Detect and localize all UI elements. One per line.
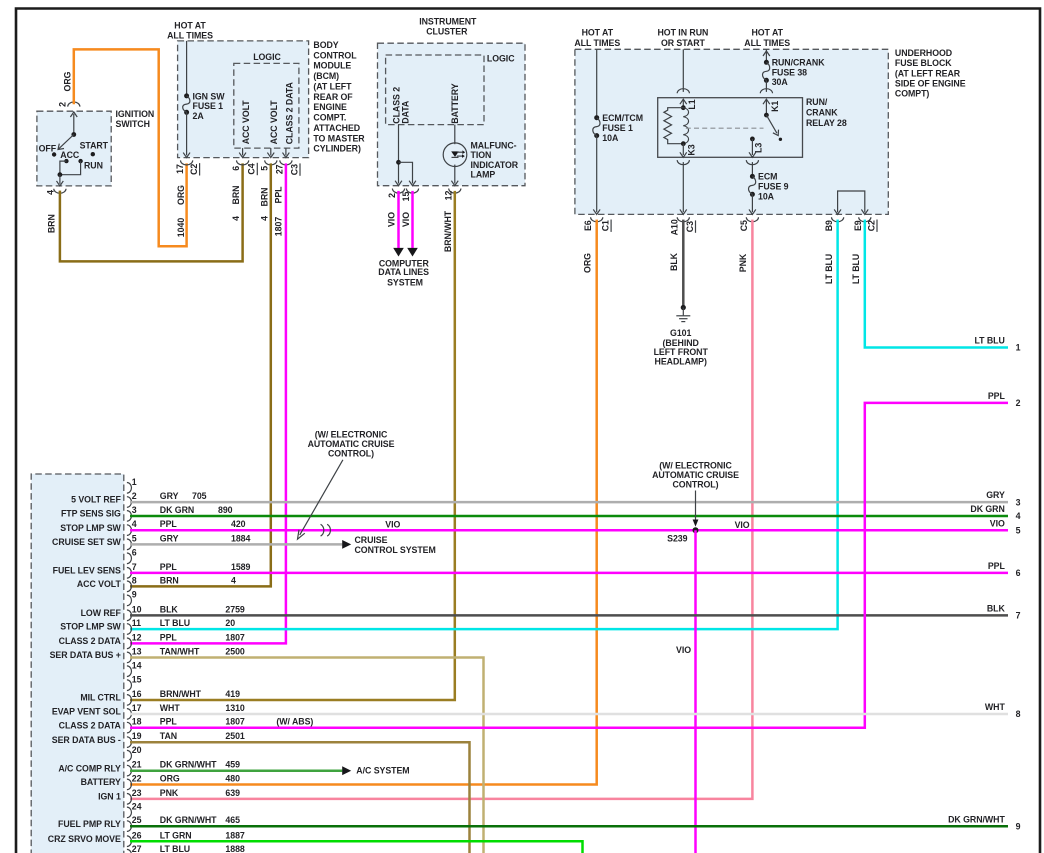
svg-text:1884: 1884 bbox=[231, 533, 251, 543]
svg-text:IGNITION: IGNITION bbox=[116, 109, 155, 119]
svg-text:ACC VOLT: ACC VOLT bbox=[77, 579, 122, 589]
svg-text:20: 20 bbox=[225, 618, 235, 628]
ignition switch box bbox=[37, 111, 111, 186]
svg-text:ECM/TCM: ECM/TCM bbox=[602, 113, 643, 123]
svg-text:(W/ ABS): (W/ ABS) bbox=[276, 717, 313, 727]
fuse IGN SW FUSE 1 2A bbox=[186, 41, 188, 96]
svg-text:BODY: BODY bbox=[313, 40, 338, 50]
svg-text:15: 15 bbox=[401, 192, 411, 202]
svg-text:BLK: BLK bbox=[669, 252, 679, 271]
fuse ECM/TCM FUSE 1 10A bbox=[596, 49, 598, 117]
fuse block terminal A10 C3 bbox=[677, 217, 689, 222]
connector pin 3 bbox=[127, 511, 132, 522]
svg-text:12: 12 bbox=[443, 191, 453, 201]
malfunction indicator lamp bbox=[454, 125, 456, 145]
connector pin 5 bbox=[127, 539, 132, 550]
svg-text:PPL: PPL bbox=[160, 519, 178, 529]
relay resistor bbox=[664, 108, 683, 144]
wire DK GRN/WHT 465 connector pin 25 to lead 9 bbox=[130, 825, 1008, 828]
svg-text:BRN/WHT: BRN/WHT bbox=[160, 689, 202, 699]
svg-text:LT BLU: LT BLU bbox=[974, 336, 1004, 346]
svg-text:25: 25 bbox=[132, 815, 142, 825]
svg-text:PPL: PPL bbox=[988, 391, 1006, 401]
svg-text:DK GRN/WHT: DK GRN/WHT bbox=[160, 760, 217, 770]
svg-text:LT BLU: LT BLU bbox=[851, 254, 861, 284]
svg-text:2500: 2500 bbox=[225, 647, 245, 657]
svg-text:BRN: BRN bbox=[231, 186, 241, 205]
svg-text:TAN: TAN bbox=[160, 731, 177, 741]
svg-text:C4: C4 bbox=[247, 163, 257, 174]
svg-text:1888: 1888 bbox=[225, 844, 245, 853]
svg-text:21: 21 bbox=[132, 760, 142, 770]
svg-text:LEFT FRONT: LEFT FRONT bbox=[654, 347, 709, 357]
svg-text:BATTERY: BATTERY bbox=[450, 83, 460, 123]
svg-text:4: 4 bbox=[231, 216, 241, 221]
svg-text:5: 5 bbox=[259, 166, 269, 171]
svg-text:FUSE 1: FUSE 1 bbox=[193, 101, 224, 111]
wire ORG 480 fuse block E6 to connector pin 22 bbox=[130, 220, 597, 785]
svg-text:465: 465 bbox=[225, 815, 240, 825]
svg-text:WHT: WHT bbox=[985, 702, 1006, 712]
svg-text:A/C SYSTEM: A/C SYSTEM bbox=[356, 766, 409, 776]
svg-text:3: 3 bbox=[132, 505, 137, 515]
svg-text:GRY: GRY bbox=[160, 533, 179, 543]
wire TAN 2501 connector pin 19 down bbox=[130, 742, 470, 853]
svg-text:ECM: ECM bbox=[758, 172, 777, 182]
connector pin 12 bbox=[127, 638, 132, 649]
body control module box bbox=[178, 41, 309, 158]
svg-text:CLASS 2 DATA: CLASS 2 DATA bbox=[59, 636, 122, 646]
svg-text:TO MASTER: TO MASTER bbox=[313, 133, 365, 143]
connector pin 22 bbox=[127, 779, 132, 790]
svg-text:2501: 2501 bbox=[225, 731, 245, 741]
svg-text:HOT IN RUN: HOT IN RUN bbox=[657, 28, 708, 38]
ignition switch wire ACC-RUN to pin 4 bbox=[60, 161, 67, 175]
svg-text:DK GRN/WHT: DK GRN/WHT bbox=[948, 814, 1005, 824]
wire LT GRN 1887 connector pin 26 down bbox=[130, 841, 583, 853]
svg-text:SER DATA BUS -: SER DATA BUS - bbox=[52, 735, 121, 745]
wire PNK 639 fuse block C5 to connector pin 23 bbox=[130, 220, 752, 799]
wire ORG ignition switch to BCM bbox=[74, 49, 187, 246]
ignition switch blade bbox=[58, 135, 74, 150]
svg-text:CLASS 2 DATA: CLASS 2 DATA bbox=[284, 81, 294, 144]
svg-text:1: 1 bbox=[132, 477, 137, 487]
svg-text:CLUSTER: CLUSTER bbox=[426, 27, 468, 37]
splice S239 bbox=[693, 527, 699, 533]
svg-text:OR START: OR START bbox=[661, 38, 706, 48]
connector pin 14 bbox=[127, 666, 132, 677]
fuse block terminal B9 bbox=[832, 217, 844, 222]
svg-text:ATTACHED: ATTACHED bbox=[313, 123, 360, 133]
svg-text:BRN: BRN bbox=[259, 188, 269, 207]
svg-text:4: 4 bbox=[1016, 511, 1021, 521]
svg-text:705: 705 bbox=[192, 491, 207, 501]
svg-text:PNK: PNK bbox=[738, 253, 748, 272]
svg-text:14: 14 bbox=[132, 660, 142, 670]
svg-text:1310: 1310 bbox=[225, 703, 245, 713]
connector pin 21 bbox=[127, 765, 132, 776]
svg-text:TAN/WHT: TAN/WHT bbox=[160, 647, 200, 657]
connector pin 13 bbox=[127, 652, 132, 663]
cluster pin 2 terminal bbox=[392, 189, 404, 194]
svg-text:7: 7 bbox=[132, 562, 137, 572]
svg-text:6: 6 bbox=[231, 166, 241, 171]
svg-text:LT GRN: LT GRN bbox=[160, 830, 192, 840]
svg-text:19: 19 bbox=[132, 731, 142, 741]
connector pin 18 bbox=[127, 722, 132, 733]
connector pin 16 bbox=[127, 695, 132, 706]
relay feed wire HOT IN RUN bbox=[682, 49, 684, 92]
relay coil node bottom bbox=[681, 141, 686, 146]
svg-text:E9: E9 bbox=[853, 220, 863, 231]
wire WHT 1310 connector pin 17 to lead 8 bbox=[130, 713, 1008, 716]
svg-text:26: 26 bbox=[132, 830, 142, 840]
svg-text:5: 5 bbox=[132, 533, 137, 543]
svg-text:AUTOMATIC CRUISE: AUTOMATIC CRUISE bbox=[308, 439, 395, 449]
connector pin 17 bbox=[127, 709, 132, 720]
svg-text:A10: A10 bbox=[670, 219, 680, 235]
svg-text:CRUISE: CRUISE bbox=[355, 535, 388, 545]
svg-text:A/C COMP RLY: A/C COMP RLY bbox=[58, 763, 121, 773]
svg-text:C1: C1 bbox=[601, 220, 611, 231]
svg-text:4: 4 bbox=[231, 575, 236, 585]
svg-text:ORG: ORG bbox=[63, 71, 73, 91]
svg-text:4: 4 bbox=[259, 216, 269, 221]
wire BRN 4 ignition switch to BCM bbox=[60, 163, 243, 261]
svg-text:SIDE OF ENGINE: SIDE OF ENGINE bbox=[895, 79, 966, 89]
svg-text:IGN 1: IGN 1 bbox=[98, 792, 121, 802]
svg-text:10: 10 bbox=[132, 604, 142, 614]
svg-text:27: 27 bbox=[275, 164, 285, 174]
ignition switch START contact bbox=[91, 152, 95, 156]
svg-text:30A: 30A bbox=[772, 77, 789, 87]
wire VIO cluster pin 15 to computer data lines bbox=[411, 191, 414, 248]
svg-text:419: 419 bbox=[225, 689, 240, 699]
run/crank relay 28 box bbox=[658, 98, 803, 158]
BCM pin 17 terminal C2 bbox=[181, 160, 193, 165]
ignition switch pin 4 terminal bbox=[54, 189, 66, 194]
svg-text:CLASS 2 DATA: CLASS 2 DATA bbox=[59, 720, 122, 730]
svg-text:ALL TIMES: ALL TIMES bbox=[574, 38, 620, 48]
wire LT BLU 20 fuse block B9 to connector pin 11 bbox=[130, 220, 838, 629]
connector pin 15 bbox=[127, 680, 132, 691]
svg-text:LOW REF: LOW REF bbox=[81, 608, 122, 618]
fuse RUN/CRANK FUSE 38 30A bbox=[765, 49, 767, 62]
svg-text:STOP LMP SW: STOP LMP SW bbox=[60, 523, 121, 533]
svg-text:OFF: OFF bbox=[39, 143, 57, 153]
svg-text:22: 22 bbox=[132, 774, 142, 784]
svg-text:AUTOMATIC CRUISE: AUTOMATIC CRUISE bbox=[652, 470, 739, 480]
svg-text:10A: 10A bbox=[602, 133, 619, 143]
svg-text:BATTERY: BATTERY bbox=[81, 777, 121, 787]
svg-text:VIO: VIO bbox=[735, 520, 750, 530]
svg-text:6: 6 bbox=[1016, 568, 1021, 578]
svg-text:(AT LEFT REAR: (AT LEFT REAR bbox=[895, 68, 961, 78]
connector pin 10 bbox=[127, 610, 132, 621]
svg-text:PPL: PPL bbox=[160, 562, 178, 572]
instrument cluster box bbox=[378, 43, 526, 186]
svg-text:(BCM): (BCM) bbox=[313, 71, 339, 81]
instrument cluster logic box bbox=[386, 55, 484, 125]
relay switch blade bbox=[764, 113, 769, 118]
BCM logic box bbox=[234, 63, 299, 148]
svg-text:2: 2 bbox=[57, 102, 67, 107]
svg-text:COMPT): COMPT) bbox=[895, 89, 930, 99]
relay terminal K3 bbox=[682, 144, 684, 155]
svg-text:C2: C2 bbox=[189, 164, 199, 175]
svg-text:DK GRN: DK GRN bbox=[970, 504, 1004, 514]
svg-text:STOP LMP SW: STOP LMP SW bbox=[60, 622, 121, 632]
svg-text:10A: 10A bbox=[758, 191, 775, 201]
svg-text:VIO: VIO bbox=[676, 645, 691, 655]
relay coil node top bbox=[681, 105, 686, 110]
svg-text:1589: 1589 bbox=[231, 562, 251, 572]
svg-text:K1: K1 bbox=[770, 101, 780, 112]
connector pin 9 bbox=[127, 595, 132, 606]
svg-text:G101: G101 bbox=[670, 328, 691, 338]
svg-text:CONTROL): CONTROL) bbox=[328, 448, 374, 458]
svg-text:SER DATA BUS +: SER DATA BUS + bbox=[50, 650, 121, 660]
svg-text:CRZ SRVO MOVE: CRZ SRVO MOVE bbox=[48, 834, 121, 844]
svg-text:1807: 1807 bbox=[225, 717, 245, 727]
connector pin 25 bbox=[127, 821, 132, 832]
svg-text:ORG: ORG bbox=[160, 774, 180, 784]
svg-text:23: 23 bbox=[132, 788, 142, 798]
svg-text:HEADLAMP): HEADLAMP) bbox=[655, 357, 707, 367]
fuse block terminal E9 C2 bbox=[859, 217, 871, 222]
svg-text:9: 9 bbox=[132, 590, 137, 600]
svg-text:FUEL PMP RLY: FUEL PMP RLY bbox=[58, 819, 121, 829]
fuse block internal bridge B9 E9 bbox=[838, 191, 865, 212]
wire LT BLU fuse block E9 to lead 1 bbox=[865, 220, 1008, 348]
svg-text:24: 24 bbox=[132, 802, 142, 812]
svg-text:FTP SENS SIG: FTP SENS SIG bbox=[61, 509, 121, 519]
svg-text:5 VOLT REF: 5 VOLT REF bbox=[71, 495, 121, 505]
fuse block terminal C5 bbox=[746, 217, 758, 222]
connector pin 2 bbox=[127, 497, 132, 508]
svg-text:SYSTEM: SYSTEM bbox=[387, 278, 423, 288]
svg-text:ALL TIMES: ALL TIMES bbox=[167, 30, 213, 40]
svg-text:LOGIC: LOGIC bbox=[253, 52, 281, 62]
svg-text:S239: S239 bbox=[667, 533, 688, 543]
connector pin 20 bbox=[127, 750, 132, 761]
svg-text:18: 18 bbox=[132, 717, 142, 727]
wire GRY 705 connector pin 2 to lead 3 bbox=[130, 501, 1008, 504]
connector pin 1 bbox=[127, 483, 132, 494]
ground G101 bbox=[681, 305, 686, 310]
connector pin 24 bbox=[127, 807, 132, 818]
svg-text:13: 13 bbox=[132, 647, 142, 657]
svg-text:480: 480 bbox=[225, 774, 240, 784]
svg-text:17: 17 bbox=[132, 703, 142, 713]
svg-text:CRUISE SET SW: CRUISE SET SW bbox=[52, 537, 122, 547]
wire BLK 2759 connector pin 10 to lead 7 bbox=[130, 614, 1008, 617]
svg-text:RUN: RUN bbox=[84, 161, 103, 171]
svg-text:UNDERHOOD: UNDERHOOD bbox=[895, 48, 952, 58]
svg-text:MALFUNC-: MALFUNC- bbox=[471, 140, 517, 150]
wire PPL 1807 BCM pin 27 to connector pin 12 bbox=[130, 163, 286, 643]
svg-text:9: 9 bbox=[1016, 821, 1021, 831]
relay terminal L3 bbox=[750, 137, 755, 142]
svg-text:6: 6 bbox=[132, 547, 137, 557]
svg-text:VIO: VIO bbox=[385, 519, 400, 529]
svg-text:ENGINE: ENGINE bbox=[313, 102, 347, 112]
svg-text:LT BLU: LT BLU bbox=[160, 618, 190, 628]
ignition switch OFF contact bbox=[52, 152, 56, 156]
svg-text:E6: E6 bbox=[583, 220, 593, 231]
cluster pin 12 terminal bbox=[449, 189, 461, 194]
svg-text:RELAY 28: RELAY 28 bbox=[806, 118, 847, 128]
svg-text:DATA: DATA bbox=[400, 100, 410, 124]
ignition switch common node bbox=[71, 132, 76, 137]
svg-text:PPL: PPL bbox=[160, 632, 178, 642]
wire PPL 1589 connector pin 7 to lead 6 bbox=[130, 572, 1008, 575]
svg-text:LAMP: LAMP bbox=[471, 170, 496, 180]
cluster class 2 data wires to pins 2 and 15 bbox=[398, 125, 400, 184]
ignition switch internal wire to pin 2 bbox=[73, 114, 75, 135]
svg-text:15: 15 bbox=[132, 674, 142, 684]
wire DK GRN/WHT 459 connector pin 21 to A/C system bbox=[130, 769, 342, 772]
svg-text:L3: L3 bbox=[754, 143, 764, 153]
connector pin 23 bbox=[127, 794, 132, 805]
svg-text:11: 11 bbox=[132, 618, 141, 628]
svg-text:639: 639 bbox=[225, 788, 240, 798]
svg-text:FUSE 9: FUSE 9 bbox=[758, 182, 789, 192]
connector pin 6 bbox=[127, 553, 132, 564]
svg-text:890: 890 bbox=[218, 505, 233, 515]
svg-text:TION: TION bbox=[471, 150, 492, 160]
svg-text:BLK: BLK bbox=[160, 604, 179, 614]
wire BRN 4 BCM pin 5 to connector pin 8 bbox=[130, 163, 271, 586]
connector pin 4 bbox=[127, 525, 132, 536]
fuse block terminal E6 C1 bbox=[591, 217, 603, 222]
svg-text:CONTROL: CONTROL bbox=[313, 50, 357, 60]
svg-text:HOT AT: HOT AT bbox=[751, 28, 783, 38]
svg-text:VIO: VIO bbox=[990, 518, 1005, 528]
svg-text:27: 27 bbox=[132, 844, 142, 853]
svg-text:RUN/CRANK: RUN/CRANK bbox=[772, 58, 826, 68]
svg-text:GRY: GRY bbox=[160, 491, 179, 501]
svg-text:1807: 1807 bbox=[225, 632, 245, 642]
svg-text:CRANK: CRANK bbox=[806, 107, 838, 117]
svg-text:2: 2 bbox=[387, 193, 397, 198]
svg-text:GRY: GRY bbox=[986, 490, 1005, 500]
connector pin 11 bbox=[127, 624, 132, 635]
svg-text:LOGIC: LOGIC bbox=[487, 53, 515, 63]
connector pin 7 bbox=[127, 568, 132, 579]
svg-text:PPL: PPL bbox=[160, 717, 178, 727]
svg-text:BRN: BRN bbox=[46, 214, 56, 233]
svg-text:DATA LINES: DATA LINES bbox=[378, 267, 429, 277]
svg-text:C2: C2 bbox=[866, 220, 876, 231]
wire BLK fuse block A10 to G101 bbox=[682, 220, 685, 307]
svg-text:HOT AT: HOT AT bbox=[174, 21, 206, 31]
svg-text:C3: C3 bbox=[289, 164, 299, 175]
svg-text:1807: 1807 bbox=[273, 217, 283, 237]
svg-text:20: 20 bbox=[132, 745, 142, 755]
svg-text:LT BLU: LT BLU bbox=[824, 254, 834, 284]
wire DK GRN 890 connector pin 3 to lead 4 bbox=[130, 515, 1008, 518]
connector pin 8 bbox=[127, 581, 132, 592]
svg-text:VIO: VIO bbox=[401, 212, 411, 227]
svg-text:1040: 1040 bbox=[176, 218, 186, 238]
svg-text:EVAP VENT SOL: EVAP VENT SOL bbox=[52, 707, 122, 717]
svg-text:CONTROL): CONTROL) bbox=[672, 479, 718, 489]
svg-text:COMPT.: COMPT. bbox=[313, 113, 346, 123]
svg-text:4: 4 bbox=[132, 519, 137, 529]
svg-text:8: 8 bbox=[132, 575, 137, 585]
inline connector on PPL 420 bbox=[321, 524, 324, 536]
svg-text:START: START bbox=[80, 140, 109, 150]
svg-text:7: 7 bbox=[1016, 611, 1021, 621]
ignition switch RUN contact bbox=[78, 159, 82, 163]
svg-text:RUN/: RUN/ bbox=[806, 97, 828, 107]
wire GRY 1884 connector pin 5 to cruise control system bbox=[130, 543, 342, 546]
wire BRN/WHT 419 cluster pin 12 to connector pin 16 bbox=[130, 191, 455, 700]
svg-text:ORG: ORG bbox=[582, 253, 592, 273]
svg-text:BRN/WHT: BRN/WHT bbox=[443, 210, 453, 252]
svg-text:VIO: VIO bbox=[387, 212, 397, 227]
svg-text:PPL: PPL bbox=[988, 561, 1006, 571]
svg-text:CYLINDER): CYLINDER) bbox=[313, 144, 361, 154]
svg-text:ALL TIMES: ALL TIMES bbox=[744, 38, 790, 48]
svg-text:ACC VOLT: ACC VOLT bbox=[241, 100, 251, 145]
svg-text:INSTRUMENT: INSTRUMENT bbox=[419, 17, 477, 27]
connector pin 27 bbox=[127, 849, 132, 853]
svg-text:BLK: BLK bbox=[987, 604, 1006, 614]
svg-text:(AT LEFT: (AT LEFT bbox=[313, 81, 352, 91]
svg-text:LT BLU: LT BLU bbox=[160, 844, 190, 853]
cluster pin 15 terminal bbox=[406, 189, 418, 194]
svg-text:ORG: ORG bbox=[176, 185, 186, 205]
svg-text:4: 4 bbox=[46, 190, 56, 195]
svg-text:L1: L1 bbox=[687, 99, 697, 109]
wire VIO splice S239 down bbox=[694, 530, 697, 853]
svg-text:CONTROL SYSTEM: CONTROL SYSTEM bbox=[355, 545, 436, 555]
relay switch dashed link bbox=[686, 127, 764, 129]
svg-text:2759: 2759 bbox=[225, 604, 245, 614]
svg-text:DK GRN: DK GRN bbox=[160, 505, 194, 515]
relay coil bbox=[683, 108, 688, 144]
svg-text:HOT AT: HOT AT bbox=[582, 28, 614, 38]
wire PPL 1807 lead 2 to connector pin 18 bbox=[130, 403, 1008, 728]
svg-text:459: 459 bbox=[225, 760, 240, 770]
wire A10 relay K3 to ground bbox=[682, 162, 684, 212]
connector pin 26 bbox=[127, 836, 132, 847]
svg-text:K3: K3 bbox=[686, 144, 696, 155]
svg-text:5: 5 bbox=[1016, 525, 1021, 535]
svg-text:ACC: ACC bbox=[60, 150, 80, 160]
wire TAN/WHT 2500 connector pin 13 down bbox=[130, 658, 484, 853]
svg-text:12: 12 bbox=[132, 632, 142, 642]
svg-text:420: 420 bbox=[231, 519, 246, 529]
svg-text:INDICATOR: INDICATOR bbox=[471, 160, 519, 170]
relay terminal K1 bbox=[760, 89, 772, 94]
connector pin 19 bbox=[127, 737, 132, 748]
connector block (powertrain control module connector) bbox=[31, 474, 124, 853]
svg-text:B9: B9 bbox=[824, 220, 834, 231]
svg-text:8: 8 bbox=[1016, 709, 1021, 719]
ignition switch pin 2 terminal bbox=[68, 102, 80, 107]
svg-text:SWITCH: SWITCH bbox=[116, 119, 150, 129]
svg-text:DK GRN/WHT: DK GRN/WHT bbox=[160, 815, 217, 825]
wire PPL 420 / VIO connector pin 4 to lead 5 bbox=[130, 529, 1008, 532]
svg-text:WHT: WHT bbox=[160, 703, 181, 713]
svg-text:FUEL LEV SENS: FUEL LEV SENS bbox=[53, 566, 121, 576]
svg-text:IGN SW: IGN SW bbox=[193, 91, 226, 101]
svg-text:FUSE BLOCK: FUSE BLOCK bbox=[895, 58, 952, 68]
svg-text:ACC VOLT: ACC VOLT bbox=[269, 100, 279, 145]
